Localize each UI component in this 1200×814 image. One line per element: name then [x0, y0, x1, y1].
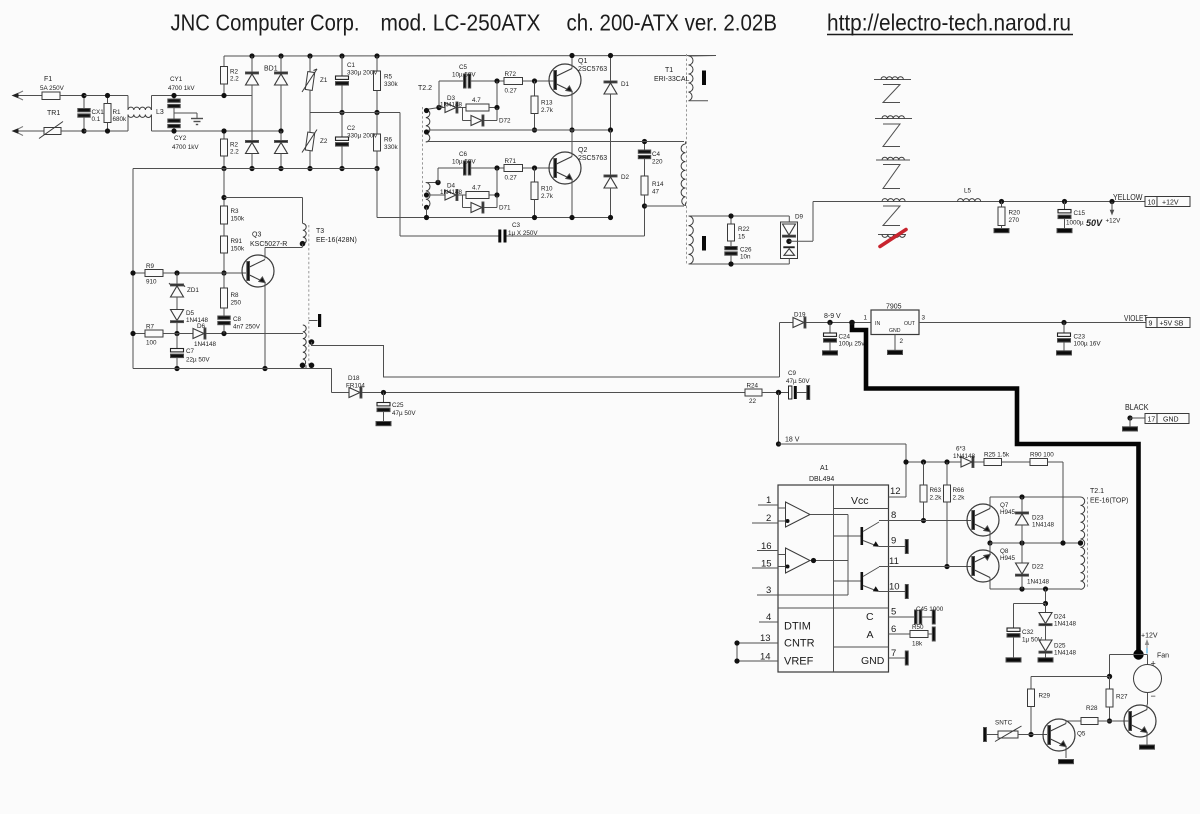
ground (C32) [1006, 658, 1021, 662]
svg-text:−: − [1151, 691, 1156, 701]
svg-text:8-9 V: 8-9 V [824, 313, 841, 320]
svg-text:1N4148: 1N4148 [1032, 522, 1055, 529]
svg-text:C3: C3 [512, 222, 521, 229]
svg-text:4.7: 4.7 [472, 185, 481, 192]
svg-text:D5: D5 [186, 310, 195, 317]
capacitor C32 [1007, 604, 1020, 658]
transformer T3 primary winding [300, 224, 306, 248]
fan motor [1134, 655, 1162, 705]
ground (C9) [807, 386, 810, 400]
svg-text:F1: F1 [44, 76, 52, 83]
dual diode D9 [781, 216, 814, 264]
T2.2 upper winding [424, 105, 442, 142]
svg-text:+5V SB: +5V SB [1160, 321, 1184, 328]
svg-text:ch. 200-ATX ver. 2.02B: ch. 200-ATX ver. 2.02B [567, 10, 778, 36]
capacitor C9 [789, 386, 807, 399]
internal transistor (upper) [834, 521, 889, 547]
diode D71 [463, 195, 498, 213]
ground (C23) [1057, 351, 1072, 355]
ground (C15) [1057, 229, 1072, 233]
svg-text:DBL494: DBL494 [809, 476, 834, 483]
svg-text:17: 17 [1148, 417, 1156, 424]
inductor L5 [957, 199, 981, 202]
svg-text:SNTC: SNTC [995, 720, 1013, 727]
capacitor C26 [725, 247, 737, 267]
svg-text:R6: R6 [384, 137, 393, 144]
svg-text:C24: C24 [839, 334, 851, 341]
svg-text:150k: 150k [231, 216, 246, 223]
top bus (+) y=56 [224, 53, 716, 58]
resistor R91 [221, 236, 228, 276]
zener ZD1 [169, 273, 185, 310]
svg-text:15: 15 [738, 234, 746, 241]
svg-text:T2.2: T2.2 [418, 85, 432, 92]
svg-text:R9: R9 [146, 263, 155, 270]
svg-text:4700 1kV: 4700 1kV [172, 144, 199, 151]
resistor R6 [374, 113, 381, 172]
+12V rail [874, 199, 1145, 204]
svg-text:1N4148: 1N4148 [1027, 579, 1050, 586]
svg-text:+: + [1151, 659, 1156, 669]
transistor Q3 [242, 248, 302, 372]
7905 pin 2 ground [888, 335, 903, 355]
internal transistor (lower) [834, 567, 889, 592]
svg-text:3: 3 [766, 585, 771, 596]
capacitor C6 [438, 161, 504, 183]
T3 core dashed line [308, 225, 310, 365]
diode D24 [1039, 604, 1052, 641]
resistor R24 [745, 389, 789, 396]
output choke winding 1 [874, 77, 911, 80]
transformer T1 core dashes [686, 54, 688, 265]
transistor Q5 [1043, 719, 1075, 758]
svg-text:22µ 50V: 22µ 50V [186, 357, 210, 364]
ground (CY midpoint) [174, 113, 203, 125]
common-mode choke L3 [128, 96, 152, 132]
svg-text:330k: 330k [384, 144, 399, 151]
output choke winding 2 [875, 116, 912, 119]
svg-text:C6: C6 [459, 151, 468, 158]
svg-text:10µ 50V: 10µ 50V [452, 159, 476, 166]
pin 9 ground [889, 540, 909, 554]
resistor R25 [984, 459, 1030, 466]
+12V label and arrow [1141, 633, 1158, 640]
svg-text:1N4148: 1N4148 [194, 341, 217, 348]
diode D1 [604, 53, 617, 133]
svg-text:YELLOW: YELLOW [1113, 193, 1143, 202]
resistor R2 (top) [221, 56, 228, 98]
svg-text:2.2: 2.2 [230, 76, 239, 83]
wire AC1 L3-bridge [152, 95, 253, 97]
svg-text:R2: R2 [230, 142, 239, 149]
connector pin 9 +5V SB [1146, 318, 1190, 328]
resistor R14 [641, 176, 648, 236]
transformer T1 secondary winding [689, 216, 790, 264]
svg-text:7905: 7905 [886, 304, 902, 311]
svg-text:T2.1: T2.1 [1090, 488, 1104, 495]
svg-text:10: 10 [889, 582, 900, 593]
resistor R90 [1030, 459, 1063, 544]
svg-text:15: 15 [761, 559, 772, 570]
svg-text:R10: R10 [541, 186, 553, 193]
svg-text:R66: R66 [953, 487, 965, 494]
pin 11 wire [889, 566, 972, 568]
connector pin 10 +12V [1145, 197, 1190, 207]
svg-text:CY1: CY1 [170, 76, 183, 83]
diode D23 [1016, 497, 1029, 543]
transformer T2.1 winding [1078, 497, 1085, 589]
18V rail [779, 444, 907, 497]
resistor R3 [221, 206, 228, 236]
svg-text:R20: R20 [1009, 210, 1021, 217]
svg-text:22: 22 [749, 398, 757, 405]
capacitor CY1 [168, 93, 180, 113]
capacitor C1 [336, 56, 349, 115]
svg-text:BLACK: BLACK [1125, 403, 1149, 412]
transistor Q8 (mirrored) [967, 543, 999, 589]
svg-text:Fan: Fan [1157, 653, 1169, 660]
resistor R13 [531, 81, 538, 133]
capacitor CX1 [78, 93, 90, 134]
wire T3 tap to 7905 feed [312, 342, 780, 377]
svg-text:C26: C26 [740, 247, 752, 254]
pin 7 ground [889, 651, 909, 665]
capacitor C7 [171, 334, 184, 372]
svg-text:D71: D71 [499, 205, 511, 212]
svg-text:47: 47 [652, 189, 660, 196]
svg-text:2: 2 [766, 513, 771, 524]
svg-text:Q2: Q2 [578, 147, 587, 154]
Q8 emitter line [990, 586, 1081, 591]
svg-text:DTIM: DTIM [784, 621, 811, 633]
regulator U2 7905 [871, 310, 919, 335]
svg-text:1N4148: 1N4148 [1054, 621, 1077, 628]
ground (C24) [823, 351, 838, 355]
resistor R22 [728, 213, 735, 246]
diode D6 [193, 328, 303, 339]
svg-text:D9: D9 [795, 214, 804, 221]
resistor R7 [130, 330, 193, 337]
svg-text:2SC5763: 2SC5763 [578, 66, 607, 73]
svg-text:5A 250V: 5A 250V [40, 85, 65, 92]
Q1 emitter line [429, 129, 611, 131]
capacitor C8 [218, 316, 230, 334]
svg-text:D18: D18 [348, 375, 360, 382]
svg-text:R5: R5 [384, 74, 393, 81]
drive rail from Vcc node [903, 459, 961, 464]
svg-text:R13: R13 [541, 100, 553, 107]
resistor R2 (bottom) [221, 128, 228, 171]
svg-text:R1: R1 [113, 109, 122, 116]
capacitor C15 [1058, 202, 1071, 229]
svg-text:250: 250 [231, 300, 242, 307]
resistor R8 [221, 273, 228, 316]
AC input arrow 2 [12, 127, 45, 136]
diode 6*3 1N4148 [961, 457, 984, 468]
svg-text:EE-16(428N): EE-16(428N) [316, 237, 357, 244]
zigzag link 1 [883, 85, 900, 103]
capacitor C4 [638, 139, 650, 176]
diode D3 [439, 102, 466, 113]
svg-text:D2: D2 [621, 174, 630, 181]
svg-text:R63: R63 [930, 487, 942, 494]
svg-text:4n7 250V: 4n7 250V [233, 324, 261, 331]
bridge BD1 diode top-left [246, 56, 259, 96]
svg-text:T3: T3 [316, 228, 324, 235]
svg-text:6*3: 6*3 [956, 446, 966, 453]
svg-text:EE-16(TOP): EE-16(TOP) [1090, 498, 1128, 505]
svg-text:R3: R3 [231, 208, 240, 215]
svg-text:10: 10 [1148, 200, 1156, 207]
resistor R27 [1106, 677, 1113, 724]
svg-text:JNC Computer Corp.: JNC Computer Corp. [171, 10, 360, 36]
wire T2 primary top lead [429, 141, 685, 143]
svg-text:220: 220 [652, 159, 663, 166]
svg-text:1N4148: 1N4148 [440, 189, 463, 196]
transformer T2 primary winding (mid) [681, 142, 685, 207]
zigzag link 2 [883, 124, 900, 147]
svg-text:R2: R2 [230, 69, 239, 76]
ground (Q5) [1059, 760, 1074, 764]
capacitor C25 [377, 393, 390, 422]
diode D5 [171, 310, 184, 337]
svg-text:R8: R8 [231, 292, 240, 299]
wire R24 node down to 18V rail [776, 393, 781, 447]
svg-text:12: 12 [890, 486, 901, 497]
transformer T1 primary winding [689, 56, 717, 101]
svg-text:100µ 25v: 100µ 25v [839, 341, 866, 348]
svg-text:R29: R29 [1039, 693, 1051, 700]
pin 8 wire [889, 520, 972, 522]
svg-text:6: 6 [891, 624, 896, 635]
svg-text:10n: 10n [740, 254, 751, 261]
VIOLET label [1124, 314, 1148, 323]
AC input arrow 1 [12, 91, 43, 100]
left rail down [132, 169, 134, 369]
op-amp U1a [778, 502, 810, 527]
svg-text:D72: D72 [499, 118, 511, 125]
svg-text:Vcc: Vcc [851, 495, 869, 507]
ground (R20) [994, 229, 1009, 233]
svg-text:D23: D23 [1032, 515, 1044, 522]
svg-text:Q3: Q3 [252, 232, 261, 239]
svg-text:CX1: CX1 [92, 109, 105, 116]
svg-text:C7: C7 [186, 348, 195, 355]
svg-text:L3: L3 [156, 109, 164, 116]
bridge BD1 diode bottom-left [246, 96, 259, 172]
pin 10 ground [889, 585, 909, 599]
resistor R50 [889, 627, 936, 641]
svg-text:R25 1.5k: R25 1.5k [984, 452, 1010, 459]
svg-text:IN: IN [875, 321, 880, 327]
resistor R66 [944, 462, 951, 569]
svg-text:+12V: +12V [1162, 200, 1179, 207]
svg-text:100µ 16V: 100µ 16V [1074, 341, 1102, 348]
bridge BD1 diode top-right [275, 56, 288, 134]
svg-text:1: 1 [864, 315, 868, 322]
svg-text:47µ 50V: 47µ 50V [392, 410, 416, 417]
svg-text:OUT: OUT [904, 321, 916, 327]
svg-text:R24: R24 [747, 383, 759, 390]
zigzag link 4 [883, 206, 900, 226]
svg-text:13: 13 [760, 633, 771, 644]
wire AC2 CX1-R1 [84, 130, 128, 132]
svg-text:D1: D1 [621, 81, 630, 88]
svg-text:C5: C5 [459, 64, 468, 71]
svg-text:270: 270 [1009, 217, 1020, 224]
resistor R29 [1028, 677, 1035, 738]
resistor R63 [920, 462, 927, 523]
svg-text:CNTR: CNTR [784, 638, 815, 650]
svg-text:50V: 50V [1086, 218, 1103, 228]
resistor R9 [130, 270, 246, 277]
svg-text:C4: C4 [652, 151, 661, 158]
ground (D25) [1038, 658, 1053, 662]
svg-text:D19: D19 [794, 312, 806, 319]
op-amp U1b [778, 548, 810, 573]
svg-text:R7: R7 [146, 324, 155, 331]
varistor Z1 [302, 56, 317, 113]
T1 core bar (bottom) [702, 236, 706, 251]
resistor 4.7 (upper) [466, 81, 500, 111]
svg-text:R71: R71 [505, 158, 517, 165]
svg-text:ZD1: ZD1 [187, 287, 199, 294]
svg-text:L5: L5 [964, 188, 972, 195]
svg-text:ERI-33CAL: ERI-33CAL [654, 76, 690, 83]
pin 12 Vcc stub [889, 496, 907, 498]
svg-text:A: A [867, 629, 874, 641]
svg-text:GND: GND [889, 328, 901, 334]
svg-text:Z2: Z2 [320, 138, 328, 145]
svg-text:R14: R14 [652, 181, 664, 188]
svg-text:R22: R22 [738, 226, 750, 233]
varistor Z2 [302, 113, 317, 172]
diode D19 [780, 317, 872, 377]
svg-text:R50: R50 [912, 624, 924, 631]
resistor R71 [504, 165, 556, 172]
svg-text:C25: C25 [392, 402, 404, 409]
diode D2 [604, 130, 617, 220]
svg-text:680k: 680k [113, 116, 128, 123]
diode D25 [1039, 640, 1052, 658]
svg-text:D24: D24 [1054, 614, 1066, 621]
svg-text:47µ 50V: 47µ 50V [786, 378, 810, 385]
IC A1 DBL494 box [778, 485, 889, 672]
ground (fan transistor) [1140, 745, 1155, 749]
svg-text:0.1: 0.1 [92, 116, 101, 123]
T2.2 lower winding [424, 180, 441, 220]
svg-text:4700 1kV: 4700 1kV [168, 85, 195, 92]
svg-text:FR104: FR104 [346, 383, 365, 390]
svg-text:R91: R91 [231, 238, 243, 245]
fan feed line [1031, 655, 1139, 680]
negative bus y=168.5 [133, 168, 377, 170]
svg-text:10µ 50V: 10µ 50V [452, 72, 476, 79]
svg-text:CY2: CY2 [174, 135, 187, 142]
capacitor C24 [824, 323, 837, 351]
transformer T3 secondary winding [300, 325, 315, 369]
svg-text:2.7k: 2.7k [541, 107, 554, 114]
svg-text:+12V: +12V [1106, 218, 1122, 225]
Q7 collector line [990, 494, 1081, 499]
connector pin 17 GND [1145, 414, 1189, 424]
svg-text:http://electro-tech.narod.ru: http://electro-tech.narod.ru [827, 10, 1071, 36]
svg-text:C23: C23 [1074, 334, 1086, 341]
T1 core bar (top) [702, 71, 706, 86]
resistor R10 [531, 168, 538, 220]
svg-text:C8: C8 [233, 316, 242, 323]
svg-text:1: 1 [766, 495, 771, 506]
svg-text:C2: C2 [347, 125, 356, 132]
transistor Q1 [549, 53, 581, 133]
wire to T3 primary top [224, 198, 303, 224]
svg-text:16: 16 [761, 541, 772, 552]
svg-text:4: 4 [766, 612, 771, 623]
svg-text:4.7: 4.7 [472, 97, 481, 104]
svg-text:R28: R28 [1086, 705, 1098, 712]
wire AC2 L3-bridge [152, 130, 282, 132]
capacitor C23 [1058, 323, 1071, 351]
svg-text:18k: 18k [912, 641, 923, 648]
thermistor TR1 [39, 122, 84, 139]
svg-text:C: C [866, 611, 874, 623]
+5VSB output line [919, 320, 1146, 325]
svg-text:2.2: 2.2 [230, 149, 239, 156]
svg-text:R27: R27 [1116, 694, 1128, 701]
svg-text:0.27: 0.27 [505, 175, 518, 182]
svg-text:2SC5763: 2SC5763 [578, 155, 607, 162]
svg-text:2: 2 [900, 338, 904, 345]
svg-text:150k: 150k [231, 246, 246, 253]
svg-text:Q1: Q1 [578, 58, 587, 65]
pins 13/14 tie [734, 640, 778, 663]
transformer T2.2 core dashes [422, 107, 424, 207]
svg-text:C1: C1 [347, 62, 356, 69]
svg-text:1N4148: 1N4148 [1054, 650, 1077, 657]
svg-text:9: 9 [1149, 321, 1153, 328]
svg-text:R72: R72 [505, 71, 517, 78]
svg-text:11: 11 [889, 556, 899, 567]
capacitor C45 [889, 610, 936, 624]
wire R2col down to R3 [221, 169, 226, 207]
wire D9 output to +12V rail [813, 202, 874, 242]
svg-text:330k: 330k [384, 81, 399, 88]
diode D18 [349, 387, 745, 398]
title [171, 10, 1074, 36]
BLACK label [1125, 403, 1149, 412]
svg-text:C45 1000: C45 1000 [916, 606, 944, 613]
svg-text:KSC5027-R: KSC5027-R [250, 241, 287, 248]
T2.1 core dashes [1087, 497, 1089, 589]
zigzag link 3 [883, 165, 900, 189]
svg-text:2.2k: 2.2k [953, 495, 966, 502]
svg-text:C32: C32 [1022, 629, 1034, 636]
svg-text:D6: D6 [197, 323, 206, 330]
svg-text:0.27: 0.27 [505, 88, 518, 95]
capacitor CY2 [168, 113, 180, 134]
wire negative rail jog [377, 169, 611, 218]
svg-text:7: 7 [891, 648, 896, 659]
svg-text:18 V: 18 V [785, 437, 800, 444]
thermistor SNTC [984, 726, 1048, 742]
svg-text:C15: C15 [1074, 210, 1086, 217]
thick +12V feed wire [852, 323, 1139, 653]
resistor R20 [998, 202, 1005, 229]
T3 shield stub and bar [309, 314, 321, 327]
+12V node big dot [1133, 649, 1143, 659]
fan transistor [1124, 705, 1156, 745]
output choke winding 4 (+12V rail) [882, 199, 905, 202]
